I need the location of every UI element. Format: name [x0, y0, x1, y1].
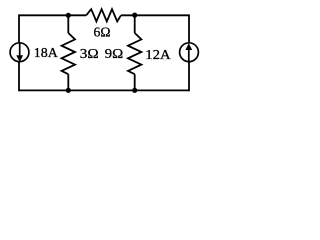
svg-text:12A: 12A [145, 48, 171, 63]
resistor R 9ohm (vertical) [128, 33, 141, 74]
junction node top-right [132, 13, 137, 18]
wire top-right segment [121, 14, 189, 16]
svg-text:3Ω: 3Ω [80, 47, 99, 62]
svg-text:9Ω: 9Ω [105, 47, 124, 62]
wire left lower [18, 62, 20, 91]
wire stub 9ohm top [134, 15, 136, 33]
wire top-left segment [19, 14, 86, 16]
current source I2 arrow (up) [185, 43, 192, 62]
wire stub 9ohm bottom [134, 74, 136, 90]
current source I2 circle [180, 43, 199, 62]
svg-text:18A: 18A [34, 46, 59, 61]
resistor R 3ohm (vertical) [62, 33, 75, 74]
wire right upper [188, 14, 190, 42]
current source I1 circle [10, 43, 29, 62]
svg-text:6Ω: 6Ω [94, 25, 111, 40]
junction node bottom-right [132, 88, 137, 93]
junction node bottom-left [66, 88, 71, 93]
wire stub 3ohm top [67, 15, 69, 33]
wire right lower [188, 62, 190, 91]
resistor R 6ohm (top, horizontal) [86, 9, 121, 21]
wire stub 3ohm bottom [67, 74, 69, 90]
wire bottom [19, 89, 189, 91]
current source I1 arrow (down) [16, 43, 23, 63]
junction node top-left [66, 13, 71, 18]
wire left upper [18, 14, 20, 42]
